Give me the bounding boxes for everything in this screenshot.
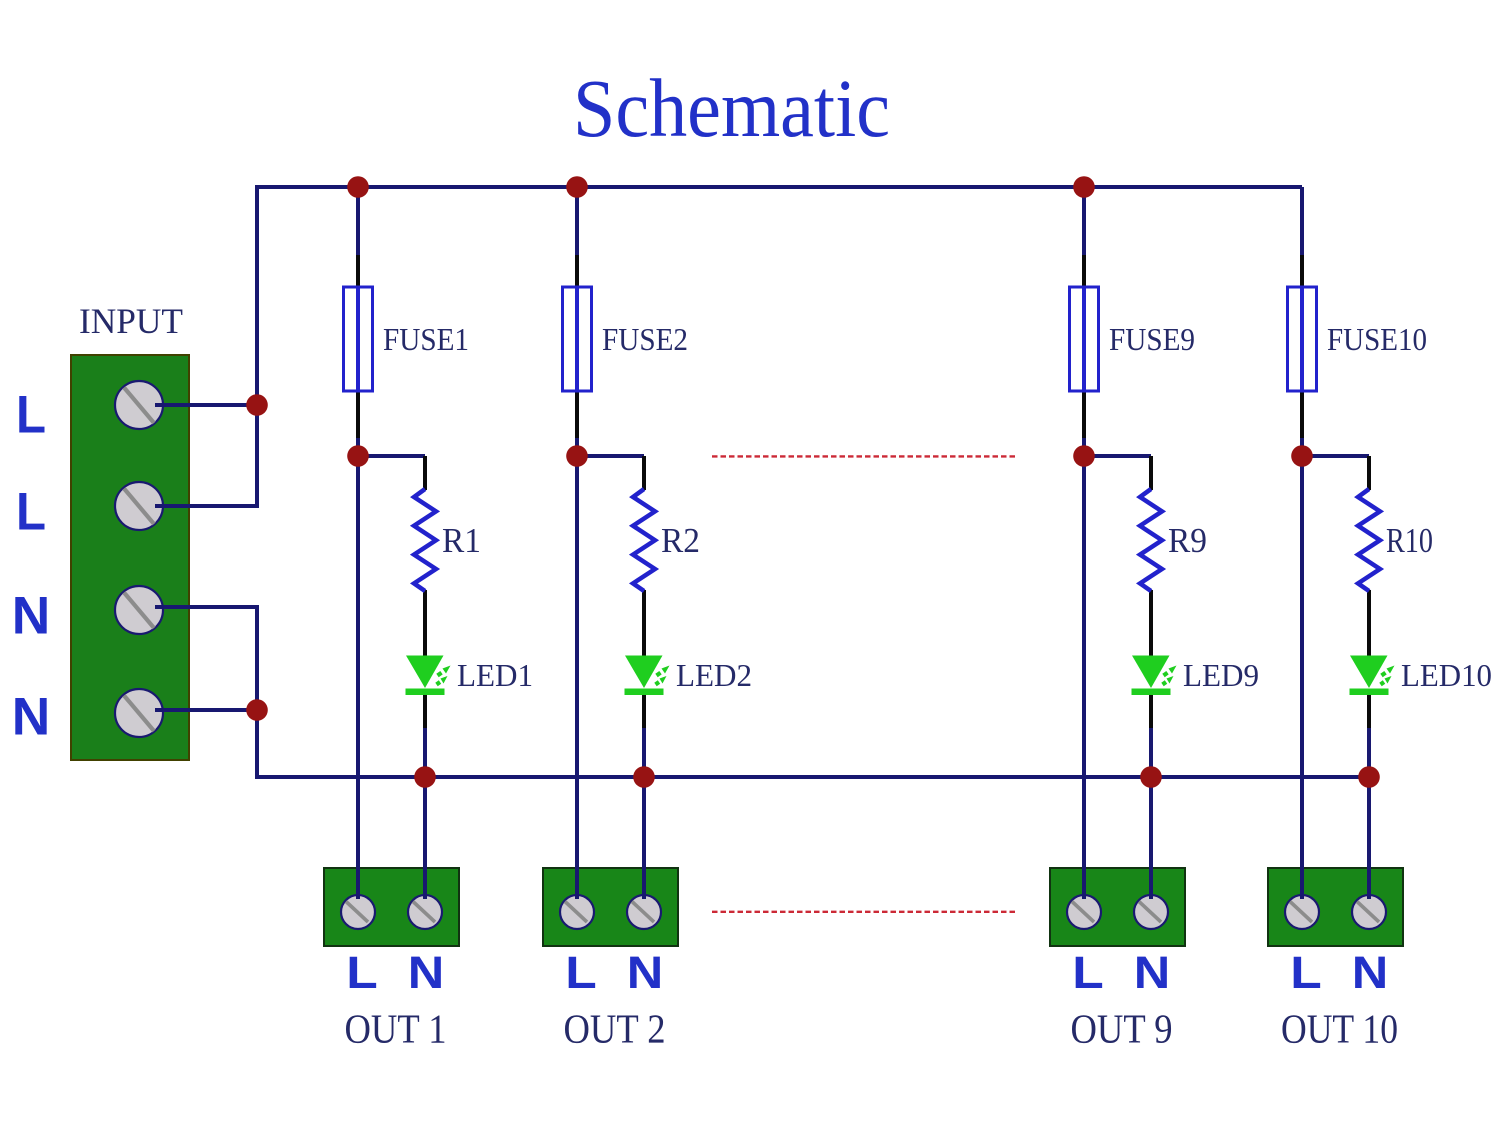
svg-text:LED10: LED10	[1401, 658, 1492, 693]
svg-text:N: N	[1134, 947, 1171, 998]
svg-text:N: N	[1352, 947, 1389, 998]
svg-text:R2: R2	[661, 521, 700, 560]
svg-text:OUT 9: OUT 9	[1071, 1006, 1173, 1052]
svg-text:N: N	[12, 688, 51, 747]
svg-text:OUT 1: OUT 1	[345, 1006, 447, 1052]
svg-text:L: L	[1072, 947, 1104, 998]
svg-text:FUSE9: FUSE9	[1109, 321, 1195, 357]
svg-text:FUSE1: FUSE1	[383, 321, 469, 357]
svg-text:FUSE10: FUSE10	[1327, 321, 1427, 357]
svg-text:OUT 2: OUT 2	[564, 1006, 666, 1052]
svg-text:N: N	[12, 587, 51, 646]
svg-text:Schematic: Schematic	[573, 62, 890, 154]
svg-text:L: L	[565, 947, 597, 998]
svg-text:R1: R1	[442, 521, 481, 560]
svg-text:R10: R10	[1386, 521, 1433, 560]
svg-text:LED2: LED2	[676, 658, 752, 693]
svg-text:FUSE2: FUSE2	[602, 321, 688, 357]
svg-text:L: L	[1290, 947, 1322, 998]
svg-text:LED1: LED1	[457, 658, 533, 693]
svg-text:L: L	[16, 483, 46, 542]
svg-text:R9: R9	[1168, 521, 1207, 560]
svg-text:INPUT: INPUT	[79, 301, 183, 341]
svg-text:L: L	[16, 386, 46, 445]
svg-text:N: N	[627, 947, 664, 998]
svg-text:OUT 10: OUT 10	[1281, 1006, 1398, 1052]
svg-text:N: N	[408, 947, 445, 998]
svg-text:LED9: LED9	[1183, 658, 1259, 693]
svg-text:L: L	[346, 947, 378, 998]
